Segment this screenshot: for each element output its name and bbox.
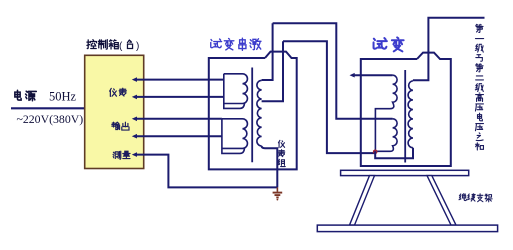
wire: HV link T1 top -> T2 excitation (outer loop) (273, 23, 393, 119)
winding T1 HV (right of core, 7 bumps) (257, 80, 262, 145)
support right leg (427, 176, 456, 226)
wire w4: 输出 to T1 primary B bottom (132, 134, 222, 139)
wire: T1 HV bottom lead to ground bus (262, 146, 278, 188)
wire w5: 测量 to ground bus (132, 152, 278, 187)
winding T1 primary B (bottom left coil) (222, 119, 248, 154)
svg-text:50Hz: 50Hz (49, 90, 77, 104)
control box 控制箱(台) (85, 55, 144, 168)
label: output voltage note (vertical) 第一级与第二级高压电压之和 (475, 24, 483, 150)
label: terminal 输出 (112, 122, 129, 130)
wire: junction jog to T2 HV bottom (375, 148, 413, 159)
T2 core (404, 70, 406, 163)
svg-text:~220V(380V): ~220V(380V) (17, 112, 84, 126)
label: terminal 仪表 (110, 88, 127, 96)
wire: T2 HV top lead to output (413, 18, 485, 81)
ground symbol (273, 187, 283, 200)
wire: T1 HV tap lead (262, 41, 283, 101)
winding T1 primary A (top left coil) (224, 74, 248, 109)
label: T1 measuring winding (vertical small text) (278, 140, 286, 166)
label: 绝缘支架 (459, 194, 492, 202)
svg-text:): ) (136, 41, 139, 52)
label: 试变 (374, 37, 404, 51)
wire + winding T2 excitation A (arrow terminal) (350, 73, 393, 78)
support base bar (317, 225, 497, 232)
transformer T2 tank outline with crossover bridge on top (361, 53, 451, 166)
support left leg (350, 176, 375, 226)
wire w2: 仪表 to T1 primary A bottom (132, 95, 224, 100)
wire w1: 仪表 to T1 primary A top (132, 77, 224, 82)
wire w3: 输出 to T1 primary B top (132, 117, 222, 122)
label: power source 电源 50Hz (15, 90, 77, 104)
insulating support platform top bar (341, 170, 469, 175)
junction red dot (373, 150, 378, 155)
label: 试变串激 (211, 38, 261, 50)
wire: tap link (inner loop) to red junction (283, 41, 375, 153)
transformer T1 tank outline with crossover bridge on top (209, 52, 297, 170)
T1 core (251, 68, 253, 163)
winding T2 excitation B (375, 119, 397, 152)
wire: T1 HV top lead (262, 23, 273, 80)
winding T2 HV (7 bumps) (408, 81, 413, 148)
label: terminal 测量 (113, 151, 130, 159)
label: 控制箱（台） (87, 40, 139, 52)
wire: power feed to control box (11, 107, 86, 109)
